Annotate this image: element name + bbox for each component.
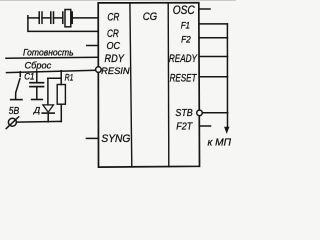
wire: F2 to MP bus bbox=[199, 37, 227, 39]
IC U1 internal divider right bbox=[167, 3, 170, 167]
switch SB1 reset button bbox=[16, 72, 21, 99]
wire: Готовность net to RDY pin bbox=[6, 57, 98, 58]
crystal ZQ bbox=[63, 10, 72, 27]
wire: RESIN node junction to R1 top bbox=[48, 71, 61, 79]
svg-text:SYNG: SYNG bbox=[101, 133, 130, 145]
svg-text:R1: R1 bbox=[65, 72, 74, 82]
resistor R1 bbox=[57, 78, 65, 121]
svg-text:CR: CR bbox=[107, 28, 119, 40]
inversion bubble RESIN pin bbox=[96, 67, 102, 73]
wire: F1 to MP bus bbox=[199, 23, 227, 25]
svg-text:OSC: OSC bbox=[173, 5, 196, 17]
svg-text:RESET: RESET bbox=[170, 72, 198, 84]
svg-text:RDY: RDY bbox=[105, 53, 125, 65]
svg-text:к МП: к МП bbox=[208, 138, 232, 149]
wire: crystal loop left and bottom return to CR pin bbox=[28, 16, 98, 32]
wire: crystal loop top segments bbox=[28, 17, 98, 19]
pin F2T stub bbox=[199, 125, 210, 127]
svg-text:READY: READY bbox=[169, 53, 198, 65]
wire: STB to MP bus bbox=[202, 112, 227, 114]
diode Д bbox=[42, 78, 54, 122]
svg-text:CR: CR bbox=[107, 11, 119, 23]
bus to microprocessor with arrowhead bbox=[224, 24, 229, 134]
svg-text:CG: CG bbox=[143, 11, 158, 23]
scan artifact top border bbox=[0, 0, 236, 2]
pin SYNG stub bbox=[86, 137, 98, 139]
svg-text:5В: 5В bbox=[9, 106, 19, 117]
capacitor C (series, right) bbox=[51, 12, 54, 23]
wire: RESET to MP bus bbox=[199, 76, 227, 78]
inversion bubble STB pin bbox=[197, 110, 203, 116]
IC U1 internal divider left bbox=[130, 3, 132, 167]
ground of switch SB1 bbox=[11, 99, 22, 101]
svg-text:F1: F1 bbox=[181, 20, 190, 30]
svg-text:Готовность: Готовность bbox=[23, 48, 74, 59]
IC U1 clock generator body bbox=[98, 3, 199, 167]
capacitor C (series, left) bbox=[39, 12, 42, 23]
svg-text:F2T: F2T bbox=[176, 122, 193, 133]
svg-text:C1: C1 bbox=[24, 72, 34, 82]
power terminal 5В bbox=[6, 117, 18, 129]
svg-text:Д: Д bbox=[33, 106, 41, 115]
svg-text:OC: OC bbox=[107, 41, 121, 52]
capacitor C1 bbox=[30, 72, 44, 100]
wire: Сброс net to RESIN pin bbox=[7, 70, 96, 72]
svg-text:STB: STB bbox=[175, 108, 192, 119]
svg-text:Сброс: Сброс bbox=[25, 61, 52, 72]
svg-text:F2: F2 bbox=[181, 34, 191, 44]
svg-text:RESIN: RESIN bbox=[101, 66, 130, 76]
wire: READY to MP bus bbox=[199, 56, 227, 58]
ground of C1 bbox=[32, 99, 43, 101]
pin OC stub bbox=[87, 45, 99, 47]
wire: +5V rail bbox=[16, 120, 61, 123]
pin OSC stub bbox=[199, 8, 210, 10]
